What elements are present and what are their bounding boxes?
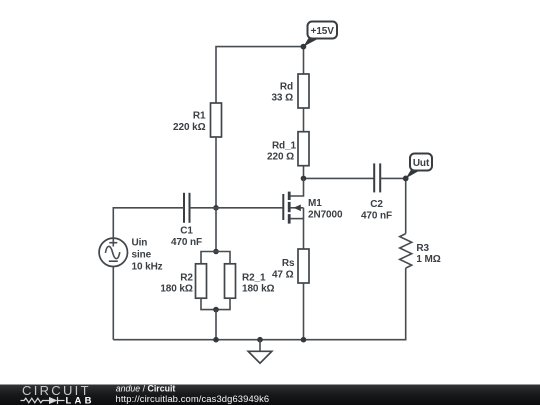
svg-text:R2: R2 xyxy=(180,272,193,283)
node bus left junction xyxy=(213,337,219,343)
wire Rd to Rd_1 xyxy=(303,108,305,132)
svg-text:Uin: Uin xyxy=(132,238,148,249)
resistor Rd_1 xyxy=(267,132,309,166)
svg-text:470 nF: 470 nF xyxy=(171,237,202,248)
wire gate lead xyxy=(216,207,282,209)
svg-text:220 kΩ: 220 kΩ xyxy=(173,122,206,133)
svg-text:R2_1: R2_1 xyxy=(242,272,266,283)
svg-text:Rd_1: Rd_1 xyxy=(272,141,297,152)
svg-text:10 kHz: 10 kHz xyxy=(132,262,163,273)
svg-text:M1: M1 xyxy=(308,198,322,209)
resistor R3 xyxy=(400,234,441,269)
wire R3 to ground bus xyxy=(113,268,405,340)
node drain junction xyxy=(301,176,307,182)
svg-text:Uut: Uut xyxy=(413,158,430,169)
svg-text:C1: C1 xyxy=(180,226,193,237)
wire source bottom to ground bus xyxy=(112,267,114,340)
node ground junction xyxy=(257,337,263,343)
svg-text:2N7000: 2N7000 xyxy=(308,210,343,221)
svg-text:R3: R3 xyxy=(416,243,429,254)
svg-text:Rs: Rs xyxy=(282,258,295,269)
wire +15V node to Rd xyxy=(303,47,305,74)
wire gate node down to R2 bus xyxy=(215,208,217,252)
wire Rd_1 to drain node xyxy=(303,166,305,179)
capacitor C1 xyxy=(171,193,202,248)
wire C2 to Uut node xyxy=(380,177,406,179)
svg-text:180 kΩ: 180 kΩ xyxy=(160,283,193,294)
wire R1 to gate node xyxy=(215,137,217,208)
svg-text:1 MΩ: 1 MΩ xyxy=(416,254,440,265)
footer bar xyxy=(0,385,540,405)
node R2 bottom junction xyxy=(213,307,219,313)
svg-text:33 Ω: 33 Ω xyxy=(271,93,293,104)
svg-text:sine: sine xyxy=(132,250,152,261)
svg-text:R1: R1 xyxy=(193,110,206,121)
capacitor C2 xyxy=(361,163,392,221)
svg-text:+15V: +15V xyxy=(311,26,335,37)
node R2 top junction xyxy=(213,249,219,255)
svg-text:220 Ω: 220 Ω xyxy=(267,152,294,163)
wire R2 parallel bottom frame xyxy=(201,298,230,309)
wire C1 to gate node xyxy=(190,207,217,209)
svg-text:47 Ω: 47 Ω xyxy=(272,270,294,281)
wire drain node to C2 xyxy=(304,177,375,179)
resistor R2_1 xyxy=(225,264,275,298)
voltage source Uin xyxy=(99,238,163,273)
node gate junction xyxy=(213,205,219,211)
svg-text:http://circuitlab.com/cas3dg63: http://circuitlab.com/cas3dg63949k6 xyxy=(116,393,270,404)
footer logo resistor-diode glyph xyxy=(21,397,65,404)
wire Rs to ground bus xyxy=(303,283,305,340)
resistor Rs xyxy=(272,249,309,283)
ground xyxy=(248,340,272,364)
resistor R1 xyxy=(173,103,221,137)
resistor R2 xyxy=(160,264,206,298)
svg-text:Rd: Rd xyxy=(280,81,293,92)
svg-text:180 kΩ: 180 kΩ xyxy=(242,283,275,294)
svg-text:C2: C2 xyxy=(370,199,383,210)
wire Uut node to R3 xyxy=(405,178,407,233)
net flag +15V xyxy=(301,22,338,50)
wire top bus from R1 to +15V node xyxy=(216,47,304,103)
wire R2 parallel frame xyxy=(201,252,230,264)
resistor Rd xyxy=(271,74,309,108)
net flag Uut xyxy=(403,154,432,182)
wire R2 bottom to ground bus xyxy=(215,310,217,340)
node bus right junction xyxy=(301,337,307,343)
svg-text:470 nF: 470 nF xyxy=(361,210,392,221)
transistor M1 xyxy=(283,178,343,249)
wire source to C1 xyxy=(113,208,184,238)
svg-text:LAB: LAB xyxy=(66,396,95,405)
